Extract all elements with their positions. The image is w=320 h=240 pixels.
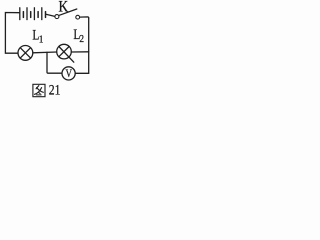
label L2 (73, 27, 84, 45)
wire L2 to right rail (71, 51, 88, 53)
switch K (55, 9, 80, 19)
wire voltmeter to right rail (75, 72, 88, 74)
svg-text:V: V (66, 68, 73, 80)
wire L1 to L2 (33, 51, 57, 54)
svg-text:21: 21 (49, 81, 61, 98)
svg-text:2: 2 (79, 34, 84, 46)
wire right vertical rail (88, 18, 90, 73)
battery B1 (20, 8, 46, 20)
wire battery to switch (46, 14, 55, 16)
lamp L2 (57, 44, 74, 62)
wire switch to right rail (80, 17, 89, 18)
caption glyph 图 (33, 84, 45, 96)
svg-text:1: 1 (39, 34, 44, 46)
wire voltmeter branch left (47, 52, 62, 73)
label L1 (32, 27, 43, 45)
voltmeter V (62, 67, 75, 80)
lamp L1 (18, 46, 33, 61)
svg-text:K: K (59, 0, 69, 16)
wire left vertical and top-left horizontal (5, 13, 19, 54)
